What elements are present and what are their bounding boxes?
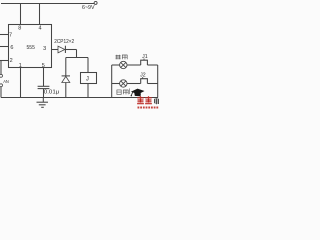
svg-text:J1: J1 [142, 54, 148, 60]
svg-text:5: 5 [42, 63, 45, 69]
svg-text:7: 7 [9, 32, 12, 38]
svg-text:6~9V: 6~9V [82, 5, 95, 11]
svg-text:0.01μ: 0.01μ [44, 90, 60, 96]
svg-text:2CP12×2: 2CP12×2 [54, 39, 74, 45]
svg-text:8: 8 [18, 26, 21, 32]
svg-text:555: 555 [27, 45, 36, 51]
svg-text:J2: J2 [140, 73, 146, 79]
svg-text:J: J [86, 77, 89, 83]
svg-text:4: 4 [38, 26, 41, 32]
svg-text:1: 1 [19, 63, 22, 69]
svg-text:3: 3 [43, 46, 46, 52]
svg-text:6: 6 [10, 45, 13, 51]
svg-text:2: 2 [10, 58, 13, 64]
svg-text:AN: AN [3, 79, 9, 84]
